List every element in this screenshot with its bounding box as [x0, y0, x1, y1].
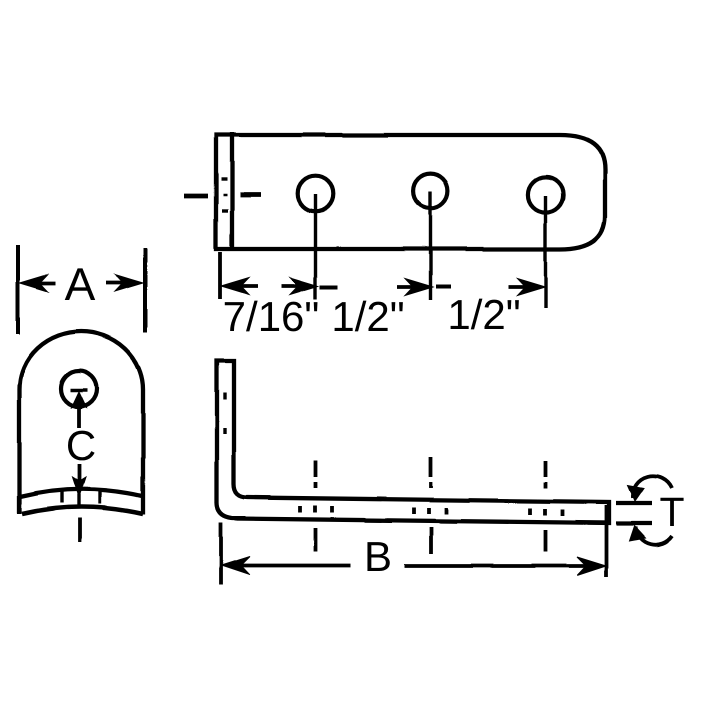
svg-text:B: B: [364, 533, 392, 580]
svg-text:T: T: [659, 489, 684, 535]
svg-text:7/16": 7/16": [223, 293, 320, 340]
svg-text:1/2": 1/2": [331, 293, 404, 340]
svg-text:A: A: [65, 258, 96, 310]
svg-text:1/2": 1/2": [447, 291, 520, 338]
svg-text:C: C: [66, 422, 96, 469]
